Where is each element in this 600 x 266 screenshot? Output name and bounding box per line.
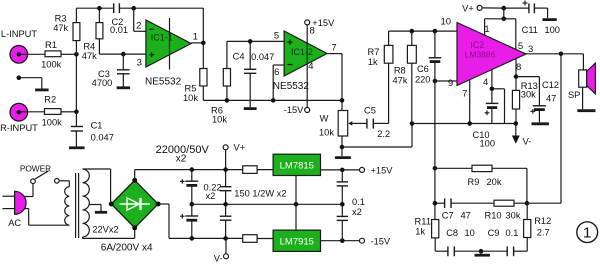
wire pin 1 xyxy=(485,19,504,35)
wire IC2 output pin 3 xyxy=(526,52,583,70)
node pin2 drop xyxy=(131,6,136,11)
svg-text:9: 9 xyxy=(448,78,453,89)
resistor R13 30k xyxy=(512,77,537,126)
svg-text:100: 100 xyxy=(480,139,496,149)
capacitor C5 2.2 xyxy=(364,63,390,139)
svg-text:3: 3 xyxy=(137,57,142,68)
svg-text:R11: R11 xyxy=(415,217,431,227)
svg-text:0.01: 0.01 xyxy=(110,25,128,35)
svg-text:C4: C4 xyxy=(233,51,245,61)
svg-text:2.2: 2.2 xyxy=(377,129,390,139)
switch POWER xyxy=(24,171,69,197)
capacitor 22000uF top xyxy=(180,167,198,204)
transformer T1 primary xyxy=(65,187,70,226)
node R9 left xyxy=(433,166,438,171)
node pin6 drop xyxy=(271,65,284,103)
wire pin 7 xyxy=(467,80,472,126)
wire pin9 column down xyxy=(434,81,436,168)
svg-text:-15V: -15V xyxy=(284,105,304,115)
svg-text:x2: x2 xyxy=(176,153,187,164)
svg-text:47: 47 xyxy=(461,211,471,221)
connector AC plug xyxy=(3,191,27,228)
ground (C4) xyxy=(244,107,257,110)
svg-text:R2: R2 xyxy=(44,95,56,105)
node C7 row left xyxy=(433,201,438,206)
svg-text:47k: 47k xyxy=(53,23,68,33)
svg-text:R7: R7 xyxy=(368,47,380,57)
svg-text:10k: 10k xyxy=(212,115,227,125)
terminal V- (rectifier) xyxy=(214,238,229,263)
terminal V+ (rectifier) xyxy=(223,143,245,172)
capacitor C10 100 xyxy=(473,89,499,149)
node C1 top xyxy=(74,110,79,115)
svg-text:1k: 1k xyxy=(415,227,425,237)
regulator LM7815 xyxy=(273,154,320,175)
svg-text:7: 7 xyxy=(462,88,467,99)
resistor R12 2.7 xyxy=(524,203,552,251)
svg-text:4700: 4700 xyxy=(92,78,113,88)
wire middle 0V rail xyxy=(192,203,342,205)
svg-text:2.7: 2.7 xyxy=(537,228,550,238)
transformer T1 core xyxy=(76,173,79,238)
svg-text:LM3886: LM3886 xyxy=(465,49,496,59)
ground (C11) xyxy=(543,18,557,21)
resistor 150 (negative) xyxy=(243,235,273,243)
svg-text:20k: 20k xyxy=(487,177,502,187)
ground (C1) xyxy=(69,146,85,149)
resistor R11 1k xyxy=(415,217,439,252)
svg-text:1: 1 xyxy=(583,225,591,242)
svg-text:V+: V+ xyxy=(462,3,474,13)
resistor R1 100k xyxy=(41,40,76,69)
svg-text:5: 5 xyxy=(274,30,279,41)
wire output column down xyxy=(527,54,561,203)
node R4 top xyxy=(97,6,102,11)
power-amp IC2 LM3886 xyxy=(457,23,526,86)
svg-text:V-: V- xyxy=(214,254,223,264)
capacitor C4 0.047 xyxy=(233,41,275,107)
svg-text:30k: 30k xyxy=(521,90,536,100)
wire pot bottom to R8 bottom xyxy=(342,124,412,148)
ground (C3) xyxy=(117,86,131,89)
wire pin5 net xyxy=(227,40,284,42)
pin labels IC1-2 xyxy=(274,25,337,78)
node A (R1/R3 junction) xyxy=(74,52,79,112)
connector L-INPUT jack xyxy=(1,29,45,63)
transformer T1 secondary 22Vx2 xyxy=(83,169,119,237)
svg-text:IC1-1: IC1-1 xyxy=(151,33,173,43)
wire bridge right to V- rail xyxy=(158,204,243,238)
svg-text:LM7915: LM7915 xyxy=(280,237,314,248)
potentiometer W 10k xyxy=(319,111,367,150)
capacitor C11 100 xyxy=(522,1,560,36)
wire pin3 net xyxy=(99,53,145,55)
pin labels IC2 xyxy=(441,17,534,100)
svg-text:47k: 47k xyxy=(393,76,408,86)
svg-text:10: 10 xyxy=(465,228,475,238)
svg-text:C11: C11 xyxy=(522,25,538,35)
svg-text:C12: C12 xyxy=(542,80,559,90)
capacitor 0.1 bottom xyxy=(337,204,348,240)
svg-text:LM7815: LM7815 xyxy=(280,161,314,172)
wire secondary center tap xyxy=(89,205,101,212)
wire LM7815 ground pin xyxy=(294,176,299,207)
resistor R9 20k xyxy=(435,165,527,203)
svg-text:6: 6 xyxy=(274,67,279,78)
svg-text:R5: R5 xyxy=(185,84,197,94)
svg-text:+15V: +15V xyxy=(371,166,394,176)
svg-text:AC: AC xyxy=(8,218,21,228)
wire IC1-1 output pin 1 xyxy=(191,8,206,45)
node R8 top xyxy=(410,29,415,34)
svg-text:+15V: +15V xyxy=(312,18,335,28)
regulator LM7915 xyxy=(273,230,320,251)
resistor R6 10k xyxy=(211,41,230,124)
wire pin10 net xyxy=(389,30,457,32)
wire secondary top to bridge left xyxy=(83,169,111,204)
wire pin 5 xyxy=(504,19,516,50)
svg-text:0.047: 0.047 xyxy=(251,52,274,62)
svg-text:1k: 1k xyxy=(368,57,378,67)
ground (speaker) xyxy=(577,109,595,112)
svg-text:V+: V+ xyxy=(234,143,246,153)
svg-text:7: 7 xyxy=(331,42,336,53)
connector R-INPUT jack xyxy=(0,103,44,133)
figure number 1 xyxy=(577,222,598,243)
svg-text:-15V: -15V xyxy=(371,236,391,246)
node C4 top xyxy=(248,39,253,44)
jack ground node xyxy=(17,75,42,88)
wire V- rail xyxy=(412,123,516,125)
svg-text:x2: x2 xyxy=(352,207,362,217)
svg-text:x2: x2 xyxy=(206,191,216,201)
svg-text:0.1: 0.1 xyxy=(506,228,519,238)
resistor R5 10k xyxy=(183,43,207,103)
svg-text:1: 1 xyxy=(193,32,198,43)
capacitor C3 4700 xyxy=(92,54,130,88)
svg-text:C8: C8 xyxy=(446,228,458,238)
svg-text:R9: R9 xyxy=(468,177,480,187)
svg-text:C1: C1 xyxy=(91,121,103,131)
terminal V+ xyxy=(462,3,504,13)
svg-text:100k: 100k xyxy=(41,60,62,70)
svg-text:W: W xyxy=(320,114,329,124)
svg-text:NE5532: NE5532 xyxy=(145,76,182,87)
svg-text:8: 8 xyxy=(516,62,521,73)
wire pin9 column to C7 row xyxy=(434,168,436,219)
svg-text:30k: 30k xyxy=(506,211,521,221)
capacitor C12 47 xyxy=(516,77,559,123)
resistor R3 47k xyxy=(53,8,80,54)
svg-text:150 1/2W x2: 150 1/2W x2 xyxy=(234,188,286,198)
bridge rectifier 6A/200V x4 xyxy=(101,178,161,254)
capacitor 0.22 top xyxy=(204,170,232,207)
svg-text:22Vx2: 22Vx2 xyxy=(92,224,118,234)
wire pin 9 xyxy=(433,78,457,89)
resistor R10 30k xyxy=(485,200,530,220)
op-amp IC1-1 NE5532 xyxy=(145,18,191,87)
wire +15V output xyxy=(321,166,394,176)
ground (jacks) xyxy=(35,89,49,92)
wire secondary bottom to bridge bottom xyxy=(83,228,135,239)
capacitor C6 220 xyxy=(415,31,441,85)
wire pin 8 / mute node xyxy=(514,59,519,79)
svg-text:2: 2 xyxy=(136,20,141,31)
svg-text:R12: R12 xyxy=(534,216,551,226)
resistor R4 47k xyxy=(82,8,103,61)
capacitor C1 0.047 xyxy=(71,112,114,147)
capacitor 22000uF bottom xyxy=(180,202,198,241)
power V- arrow xyxy=(512,124,531,147)
ground (C12) xyxy=(532,122,549,125)
capacitor C8 10 xyxy=(435,228,481,256)
node C3 top xyxy=(121,52,126,57)
resistor R8 47k xyxy=(393,31,417,126)
svg-text:R10: R10 xyxy=(485,211,502,221)
resistor R2 100k xyxy=(42,95,77,128)
ground (C8/C9) xyxy=(475,249,490,255)
svg-text:R8: R8 xyxy=(394,66,406,76)
svg-text:0.047: 0.047 xyxy=(91,133,114,143)
ground (center tap) xyxy=(95,211,107,214)
capacitor 0.22 bottom xyxy=(220,204,232,240)
svg-text:220: 220 xyxy=(415,75,431,85)
svg-text:6A/200V x4: 6A/200V x4 xyxy=(101,243,153,254)
wire AC bottom to primary xyxy=(24,209,69,226)
capacitor C9 0.1 xyxy=(481,228,527,256)
capacitor C7 47 xyxy=(435,198,494,220)
svg-text:100k: 100k xyxy=(42,117,63,127)
capacitor C2 0.01 xyxy=(110,3,128,35)
svg-text:C9: C9 xyxy=(488,228,500,238)
ground (pot W) xyxy=(335,147,351,158)
svg-text:10k: 10k xyxy=(183,93,198,103)
wire pin 4 xyxy=(490,70,505,124)
svg-text:C7: C7 xyxy=(442,211,454,221)
terminal -15V (IC1-2 pin 4) xyxy=(284,64,310,115)
svg-text:10: 10 xyxy=(441,17,452,28)
svg-text:4: 4 xyxy=(483,77,488,88)
svg-text:10k: 10k xyxy=(319,127,334,137)
wire bottom net (R5/R6/pin6/out) xyxy=(203,99,342,101)
svg-text:47: 47 xyxy=(546,93,556,103)
wire bridge top to V+ rail xyxy=(135,170,243,181)
wire LM7915 ground pin xyxy=(295,204,297,230)
wire pin 2 xyxy=(134,8,146,31)
svg-text:SP: SP xyxy=(568,90,580,100)
svg-text:NE5532: NE5532 xyxy=(273,81,310,92)
svg-text:R-INPUT: R-INPUT xyxy=(0,123,38,133)
wire -15V output xyxy=(321,236,391,246)
svg-text:47k: 47k xyxy=(82,51,97,61)
resistor 150 (positive) xyxy=(243,166,273,174)
node C6 top xyxy=(433,29,438,34)
svg-text:V-: V- xyxy=(523,137,532,147)
capacitor 0.1 top xyxy=(337,170,365,217)
svg-text:IC1-2: IC1-2 xyxy=(291,47,313,57)
svg-text:100: 100 xyxy=(544,25,560,35)
resistor R7 1k xyxy=(368,31,393,67)
speaker SP xyxy=(568,63,595,109)
svg-text:L-INPUT: L-INPUT xyxy=(1,29,37,39)
terminal +15V (IC1-2 pin 8) xyxy=(305,18,335,64)
svg-text:0.1: 0.1 xyxy=(352,197,365,207)
node V+ / C11 xyxy=(502,6,529,21)
op-amp IC1-2 NE5532 xyxy=(273,31,327,92)
svg-text:C6: C6 xyxy=(417,64,429,74)
label 22000/50V x2 xyxy=(156,144,210,164)
svg-text:R1: R1 xyxy=(45,40,57,50)
svg-text:C5: C5 xyxy=(364,106,376,116)
wire IC1-2 output pin 7 xyxy=(327,54,344,111)
wire feedback top xyxy=(76,7,203,9)
